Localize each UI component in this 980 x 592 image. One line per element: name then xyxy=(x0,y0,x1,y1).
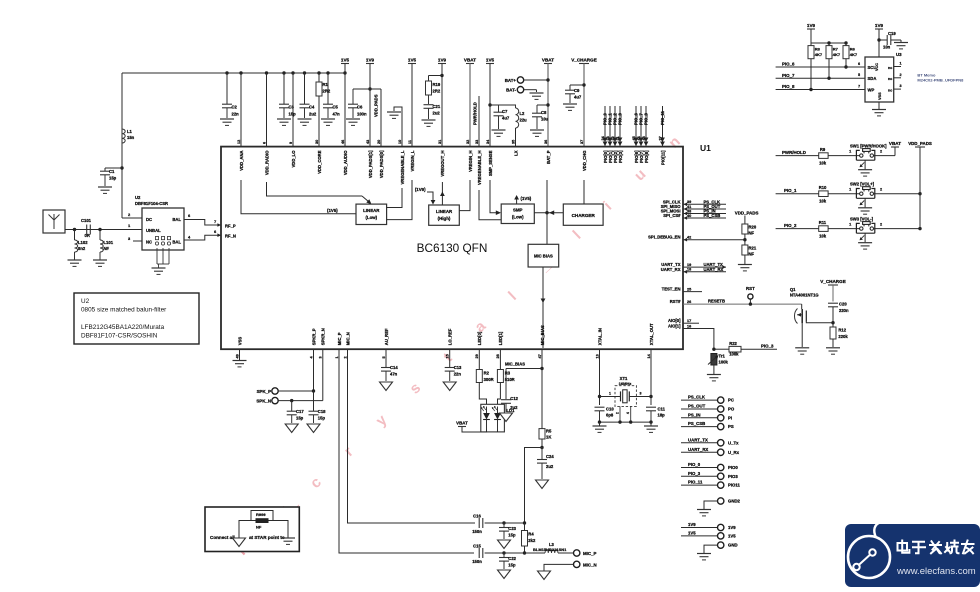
svg-text:2u2: 2u2 xyxy=(546,464,554,469)
svg-text:SMP_SENSE: SMP_SENSE xyxy=(488,150,493,176)
svg-text:PIO_3: PIO_3 xyxy=(761,344,774,349)
svg-text:12: 12 xyxy=(237,140,241,144)
wire VDD_ANA to LINEAR Low xyxy=(241,180,356,214)
svg-text:(1V9): (1V9) xyxy=(415,187,426,192)
svg-text:PS: PS xyxy=(728,424,734,429)
note box U2 balun-filter xyxy=(74,293,199,344)
svg-text:PIO_11: PIO_11 xyxy=(688,480,703,485)
capacitor C23 15p xyxy=(499,521,517,539)
wire MIC_P down and right xyxy=(339,349,474,553)
svg-text:R1: R1 xyxy=(323,82,329,87)
svg-text:VDD_PADS[0]: VDD_PADS[0] xyxy=(379,150,384,178)
U3 nc pin stubs xyxy=(894,66,901,68)
svg-text:U_Tx: U_Tx xyxy=(728,440,739,445)
capacitor C12 2u2 xyxy=(501,369,519,413)
transistor Q1 NTA4001NT1G xyxy=(790,287,833,347)
svg-text:49: 49 xyxy=(235,354,239,358)
wire to R4 xyxy=(504,522,525,524)
terminal SPK_P xyxy=(257,388,314,394)
svg-text:4u7: 4u7 xyxy=(502,116,510,121)
ground xyxy=(593,425,607,427)
svg-text:C3: C3 xyxy=(289,105,295,110)
terminal PC xyxy=(681,395,734,404)
block LINEAR (High) xyxy=(429,205,460,225)
resistor R19 2R2 xyxy=(426,74,444,104)
switch SW1 PWR/HOOK xyxy=(849,144,895,161)
svg-text:7: 7 xyxy=(858,85,860,89)
ground under SW1 xyxy=(864,160,866,169)
net PS_CLK..PS_CSB wires xyxy=(683,203,726,205)
svg-text:PS_CSB: PS_CSB xyxy=(688,421,705,426)
svg-text:PI: PI xyxy=(728,415,732,420)
wire antenna to balun xyxy=(65,229,142,231)
svg-text:8n2: 8n2 xyxy=(78,246,86,251)
capacitor C22 15p xyxy=(499,551,517,569)
wire VREGENABLE_L to LINEAR Low xyxy=(387,188,402,208)
svg-text:R21: R21 xyxy=(749,246,757,251)
svg-text:16: 16 xyxy=(687,324,691,328)
svg-text:35: 35 xyxy=(511,140,515,144)
resistor R21 NF xyxy=(742,245,757,257)
wire MIC_N down and right xyxy=(348,349,476,523)
svg-text:10k: 10k xyxy=(819,234,827,239)
resistor R12 220k xyxy=(830,327,848,347)
terminal PI xyxy=(681,412,732,421)
capacitor C18 15p xyxy=(309,391,327,423)
svg-text:VBAT: VBAT xyxy=(464,57,476,62)
svg-text:PIO_8: PIO_8 xyxy=(782,84,795,89)
svg-text:19: 19 xyxy=(687,263,691,267)
svg-text:Tr1: Tr1 xyxy=(719,354,726,359)
svg-text:LFB212G45BA1A220/Murata: LFB212G45BA1A220/Murata xyxy=(81,324,165,331)
U3 VSS ground xyxy=(878,102,880,109)
svg-text:C21: C21 xyxy=(433,104,441,109)
ground triangle in star box xyxy=(233,538,246,547)
net UART_TX wire xyxy=(683,266,726,268)
block SMP (Low) xyxy=(501,204,534,224)
svg-text:C4: C4 xyxy=(309,105,315,110)
svg-text:C17: C17 xyxy=(296,409,304,414)
svg-text:VSS: VSS xyxy=(878,92,882,100)
svg-text:1K: 1K xyxy=(546,435,551,440)
svg-text:VDD_PADS[1]: VDD_PADS[1] xyxy=(368,150,373,178)
svg-text:UART_RX: UART_RX xyxy=(688,447,708,452)
svg-text:VREGENABLE_L: VREGENABLE_L xyxy=(400,150,405,184)
svg-text:2R2: 2R2 xyxy=(323,89,331,94)
svg-text:1V5: 1V5 xyxy=(341,57,350,62)
svg-text:15: 15 xyxy=(446,354,450,358)
ground xyxy=(443,382,456,391)
block CHARGER xyxy=(563,204,603,225)
VSS pin ground xyxy=(239,349,241,360)
svg-text:10: 10 xyxy=(398,140,402,144)
svg-text:PS_IN: PS_IN xyxy=(688,412,700,417)
svg-text:SPKR_N: SPKR_N xyxy=(321,328,326,345)
svg-text:VREGIN_H: VREGIN_H xyxy=(468,151,473,172)
svg-text:NTA4001NT1G: NTA4001NT1G xyxy=(790,293,819,298)
svg-text:C2: C2 xyxy=(232,105,238,110)
resistor R9 10k xyxy=(819,147,828,166)
svg-text:29: 29 xyxy=(475,354,479,358)
svg-text:9: 9 xyxy=(289,142,293,144)
ground xyxy=(492,129,506,131)
svg-text:13: 13 xyxy=(595,354,599,358)
resistor R10 10k xyxy=(819,185,828,204)
capacitor C8 10u xyxy=(532,103,550,129)
svg-text:2: 2 xyxy=(880,222,882,226)
svg-text:1V9: 1V9 xyxy=(688,522,696,527)
svg-text:23: 23 xyxy=(606,136,610,140)
terminal MIC_N xyxy=(544,561,597,570)
svg-text:SPK_N: SPK_N xyxy=(256,399,271,404)
terminal PIO3 xyxy=(681,471,738,480)
EEPROM U3 xyxy=(865,52,902,102)
capacitor C15 150n xyxy=(472,544,504,565)
svg-text:1V5: 1V5 xyxy=(408,57,417,62)
svg-text:1: 1 xyxy=(849,222,851,226)
svg-text:BAT-: BAT- xyxy=(506,88,516,93)
terminal PIO11 xyxy=(681,480,741,489)
ground xyxy=(697,509,711,511)
svg-text:C22: C22 xyxy=(508,556,516,561)
dual LED LD1 xyxy=(479,383,515,432)
svg-text:RF_N: RF_N xyxy=(225,234,236,239)
svg-text:RST#: RST# xyxy=(670,299,681,304)
wire SMP_SENSE to SMP with arrow xyxy=(490,180,496,213)
svg-text:C6: C6 xyxy=(357,105,363,110)
svg-text:40: 40 xyxy=(687,214,691,218)
wire pullup bus xyxy=(811,42,846,44)
svg-text:21: 21 xyxy=(616,136,620,140)
svg-text:R11: R11 xyxy=(819,220,827,225)
svg-text:31: 31 xyxy=(438,140,442,144)
net VBAT stub for LD1 xyxy=(462,427,487,433)
svg-text:Q1: Q1 xyxy=(790,287,796,292)
svg-text:VSS: VSS xyxy=(237,337,242,346)
svg-text:C16: C16 xyxy=(473,514,481,519)
svg-text:AIO[0]: AIO[0] xyxy=(668,318,681,323)
ground xyxy=(422,119,436,121)
svg-text:BAT_P: BAT_P xyxy=(546,150,551,164)
terminal PS xyxy=(681,421,734,430)
net PWR/HOLD stub xyxy=(478,96,480,146)
capacitor C16 150n xyxy=(472,514,504,535)
ground xyxy=(498,540,511,549)
svg-text:20: 20 xyxy=(377,140,381,144)
svg-text:4K7: 4K7 xyxy=(815,52,823,57)
svg-text:UART_TX: UART_TX xyxy=(688,437,708,442)
svg-text:AU_REF: AU_REF xyxy=(384,328,389,345)
svg-text:PIO_3: PIO_3 xyxy=(618,112,623,125)
svg-text:LO_REF: LO_REF xyxy=(448,328,453,345)
svg-text:1V9: 1V9 xyxy=(438,57,447,62)
ground xyxy=(321,118,335,120)
svg-text:MIC_P: MIC_P xyxy=(337,332,342,345)
svg-text:15p: 15p xyxy=(508,563,516,568)
svg-text:C15: C15 xyxy=(473,544,481,549)
wire SPKR_N down xyxy=(322,349,324,401)
svg-text:18p: 18p xyxy=(658,413,666,418)
resistor R3 510R on LED[1] xyxy=(497,349,514,383)
svg-text:5: 5 xyxy=(858,73,860,77)
svg-text:SMP: SMP xyxy=(513,208,523,213)
terminal MIC_P xyxy=(574,550,597,556)
svg-text:39: 39 xyxy=(687,200,691,204)
ground xyxy=(93,259,107,261)
svg-text:MIC_N: MIC_N xyxy=(583,562,597,567)
svg-text:GND: GND xyxy=(728,543,738,548)
svg-text:VDD_PADS: VDD_PADS xyxy=(735,211,759,216)
svg-text:PS_OUT: PS_OUT xyxy=(688,404,706,409)
capacitor C21 2u2 xyxy=(424,104,441,119)
balun NC pins to ground xyxy=(156,248,158,264)
ground xyxy=(697,553,711,555)
ground xyxy=(498,570,511,579)
svg-text:NF: NF xyxy=(104,246,110,251)
terminal PO xyxy=(681,404,735,413)
capacitor C3 15p xyxy=(279,71,296,118)
resistor R20 NF xyxy=(742,224,757,236)
svg-text:PO: PO xyxy=(728,407,735,412)
svg-text:45: 45 xyxy=(632,136,636,140)
svg-text:R9: R9 xyxy=(820,147,826,152)
net UART_RX wire xyxy=(683,271,726,273)
ground xyxy=(346,118,360,120)
ground xyxy=(738,264,752,266)
svg-text:GND2: GND2 xyxy=(728,499,741,504)
svg-text:DBF81F104-CSR: DBF81F104-CSR xyxy=(135,201,168,206)
svg-text:WP: WP xyxy=(868,87,875,92)
svg-text:DC: DC xyxy=(146,217,152,222)
svg-text:2: 2 xyxy=(880,188,882,192)
svg-text:RST: RST xyxy=(746,286,755,291)
block LINEAR (Low) xyxy=(356,204,387,224)
svg-text:VREGIN_L: VREGIN_L xyxy=(410,150,415,171)
capacitor C11 18p xyxy=(646,407,666,423)
svg-text:PIO0: PIO0 xyxy=(728,465,738,470)
net MIC_BIAS stub xyxy=(541,349,543,369)
svg-text:BAL: BAL xyxy=(172,217,181,222)
svg-text:PIO[8]: PIO[8] xyxy=(644,150,649,163)
svg-text:2: 2 xyxy=(900,73,902,77)
capacitor C19 10n xyxy=(877,31,901,50)
svg-text:VDD_PADS: VDD_PADS xyxy=(908,141,932,146)
svg-text:VDD_AUDIO: VDD_AUDIO xyxy=(343,150,348,175)
capacitor C24 2u2 xyxy=(537,446,554,479)
svg-text:NC: NC xyxy=(146,240,152,245)
wire VDD_CHG into CHARGER xyxy=(583,180,585,204)
ground earth in star box xyxy=(281,537,295,539)
svg-text:47: 47 xyxy=(538,354,542,358)
ground under SW2 xyxy=(864,198,866,207)
wire AIO[0] stub xyxy=(683,322,699,324)
svg-text:22u: 22u xyxy=(520,118,528,123)
terminal BAT+ xyxy=(505,77,550,83)
capacitor C2 22n xyxy=(222,71,239,118)
svg-text:V_CHARGE: V_CHARGE xyxy=(571,57,597,62)
balun U2 DBF81F104-CSR xyxy=(135,195,184,250)
ground xyxy=(220,118,234,120)
svg-text:SW3 [VOL-]: SW3 [VOL-] xyxy=(850,217,874,222)
svg-text:SPI_CS#: SPI_CS# xyxy=(663,213,681,218)
terminal 1V9 xyxy=(681,522,736,531)
svg-text:VDD_PADS: VDD_PADS xyxy=(374,94,379,117)
svg-text:VDD_LO: VDD_LO xyxy=(291,150,296,168)
svg-text:1V5: 1V5 xyxy=(728,534,736,539)
svg-text:15p: 15p xyxy=(289,112,297,117)
capacitor C9 4u7 xyxy=(565,83,586,103)
terminal BAT- xyxy=(506,87,536,93)
capacitor C7 4u7 xyxy=(488,103,516,129)
svg-text:PIO3: PIO3 xyxy=(728,474,738,479)
trimmer Tr1 100k xyxy=(708,354,728,375)
svg-text:BC6130 QFN: BC6130 QFN xyxy=(417,241,488,255)
wire SMP to CHARGER with arrow xyxy=(534,212,563,214)
svg-text:6p8: 6p8 xyxy=(606,413,614,418)
TEST_EN stub xyxy=(683,291,702,293)
resistor R8 4K7 xyxy=(808,46,823,90)
svg-text:(Low): (Low) xyxy=(512,215,524,220)
svg-text:4: 4 xyxy=(626,412,630,414)
ground xyxy=(536,480,549,489)
svg-text:VDD_CHG: VDD_CHG xyxy=(582,151,587,171)
svg-text:PIO[11]: PIO[11] xyxy=(660,150,665,165)
svg-text:100n: 100n xyxy=(357,112,367,117)
ground xyxy=(307,424,320,433)
svg-text:10u: 10u xyxy=(541,117,549,122)
svg-text:46: 46 xyxy=(341,140,345,144)
svg-text:XTAL_OUT: XTAL_OUT xyxy=(649,323,654,345)
svg-text:R999: R999 xyxy=(256,512,266,517)
svg-text:R7: R7 xyxy=(833,47,839,52)
svg-text:LX: LX xyxy=(513,150,518,156)
wire 1V5 top bus xyxy=(122,72,345,74)
svg-text:15p: 15p xyxy=(508,533,516,538)
svg-text:3: 3 xyxy=(900,84,902,88)
PIO_11 input line xyxy=(662,106,664,146)
inductor L102 xyxy=(73,228,88,260)
svg-text:2R2: 2R2 xyxy=(433,89,441,94)
svg-text:6: 6 xyxy=(262,142,266,144)
resistor R7 4K7 xyxy=(826,46,841,79)
svg-text:2: 2 xyxy=(343,356,347,358)
svg-text:R22: R22 xyxy=(729,341,737,346)
svg-text:nc: nc xyxy=(888,66,892,70)
svg-text:18: 18 xyxy=(687,268,691,272)
svg-text:150n: 150n xyxy=(472,559,482,564)
ferrite bead L3 BLM15HB221SN1 xyxy=(525,542,574,553)
wire MIC BIAS to pin 47 xyxy=(542,267,544,348)
ground xyxy=(826,347,840,349)
svg-text:47n: 47n xyxy=(390,372,398,377)
svg-text:100k: 100k xyxy=(729,352,739,357)
svg-text:at STAR point to: at STAR point to xyxy=(249,535,285,540)
svg-text:R20: R20 xyxy=(749,225,757,230)
capacitor C17 15p xyxy=(287,399,305,423)
svg-text:16MHz: 16MHz xyxy=(619,381,632,386)
svg-text:R10: R10 xyxy=(819,185,827,190)
svg-text:C19: C19 xyxy=(888,31,896,36)
svg-text:MIC BIAS: MIC BIAS xyxy=(534,254,553,259)
svg-text:30: 30 xyxy=(315,140,319,144)
wire VDD_RADIO to LINEAR Low arrow xyxy=(267,182,363,196)
wire AIO[1] to trimmer node xyxy=(683,329,714,350)
terminal RST xyxy=(746,286,755,306)
ground xyxy=(98,186,112,188)
svg-text:BAT+: BAT+ xyxy=(505,78,517,83)
note box star point xyxy=(205,507,299,552)
svg-text:C12: C12 xyxy=(510,396,518,401)
svg-text:SDA: SDA xyxy=(868,76,877,81)
PIO_6..PIO_8 input lines xyxy=(635,106,637,146)
svg-text:VCC: VCC xyxy=(875,63,879,71)
resistor R2 300R on LED[0] xyxy=(476,349,493,383)
svg-text:2u2: 2u2 xyxy=(510,405,518,410)
svg-text:PIO_0: PIO_0 xyxy=(688,462,701,467)
svg-text:1: 1 xyxy=(609,392,611,396)
capacitor C6 100n xyxy=(348,89,367,118)
svg-text:SPI_DEBUG_EN: SPI_DEBUG_EN xyxy=(648,235,680,240)
svg-text:(High): (High) xyxy=(438,216,451,221)
svg-text:PS_CSB: PS_CSB xyxy=(704,213,721,218)
svg-text:11: 11 xyxy=(408,140,412,144)
svg-text:PIO[3]: PIO[3] xyxy=(618,150,623,163)
resistor R22 100k xyxy=(714,341,777,357)
ground xyxy=(285,424,298,433)
svg-text:PIO_3: PIO_3 xyxy=(688,471,701,476)
svg-text:VDD_ANA: VDD_ANA xyxy=(239,150,244,170)
svg-text:PWR/HOLD: PWR/HOLD xyxy=(473,102,478,125)
svg-text:(Low): (Low) xyxy=(365,215,377,220)
svg-text:UART_RX: UART_RX xyxy=(704,267,724,272)
svg-text:www.elecfans.com: www.elecfans.com xyxy=(896,566,976,577)
switch SW3 VOL- xyxy=(849,217,922,234)
svg-text:3: 3 xyxy=(640,392,642,396)
PIO_0..PIO_3 input lines xyxy=(604,106,606,146)
svg-text:XTAL_IN: XTAL_IN xyxy=(597,328,602,345)
svg-text:R2: R2 xyxy=(484,371,490,376)
svg-text:SW2 [VOL+]: SW2 [VOL+] xyxy=(850,182,875,187)
resistor R4 2k2 xyxy=(522,523,536,553)
svg-text:Connect all: Connect all xyxy=(210,535,235,540)
svg-text:R19: R19 xyxy=(433,82,441,87)
capacitor C1 15p xyxy=(100,166,124,186)
svg-text:CHARGER: CHARGER xyxy=(572,213,596,218)
svg-text:C7: C7 xyxy=(502,109,508,114)
svg-text:1V9: 1V9 xyxy=(807,23,816,28)
resistor R1 2R2 xyxy=(316,71,331,146)
svg-text:U1: U1 xyxy=(700,143,711,153)
ground xyxy=(380,382,393,391)
svg-text:R6: R6 xyxy=(850,47,856,52)
svg-text:15n: 15n xyxy=(127,135,135,140)
svg-text:1V9: 1V9 xyxy=(728,525,736,530)
terminal U_Rx xyxy=(681,447,740,456)
svg-text:LINEAR: LINEAR xyxy=(363,208,380,213)
svg-text:nc: nc xyxy=(888,88,892,92)
svg-text:C24: C24 xyxy=(546,454,554,459)
svg-text:C1: C1 xyxy=(109,169,115,174)
svg-text:0805 size matched balun-filter: 0805 size matched balun-filter xyxy=(81,307,167,314)
svg-text:C5: C5 xyxy=(333,105,339,110)
wire XTAL_IN xyxy=(599,349,601,405)
svg-text:27: 27 xyxy=(658,136,662,140)
ground xyxy=(538,571,551,580)
svg-text:48: 48 xyxy=(642,136,646,140)
svg-text:1V5: 1V5 xyxy=(486,57,495,62)
svg-text:1: 1 xyxy=(900,62,902,66)
svg-text:2u2: 2u2 xyxy=(309,112,317,117)
